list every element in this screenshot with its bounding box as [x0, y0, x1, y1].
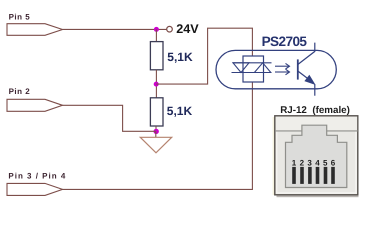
wire R1 to node B	[155, 70, 157, 98]
wire Pin3/4 to LED cathode	[63, 82, 253, 189]
pin bar 3	[308, 167, 312, 184]
diode D1 (down)	[233, 63, 249, 73]
svg-text:Pin 3 / Pin 4: Pin 3 / Pin 4	[8, 172, 66, 181]
svg-text:PS2705: PS2705	[262, 34, 308, 49]
emission arrow 1	[275, 63, 290, 69]
pin bar 5	[324, 167, 328, 184]
RJ-12 top strip	[276, 117, 358, 131]
pin bar 1	[292, 167, 296, 184]
wire node C to ground	[155, 131, 157, 137]
RJ-12 bottom shadow	[277, 196, 359, 198]
resistor R1	[150, 42, 163, 70]
transistor Q1 emitter arrow	[305, 76, 314, 84]
pin bar 6	[331, 167, 335, 184]
pin bar 2	[300, 167, 304, 184]
wire node B to LED anode	[156, 28, 252, 84]
resistor R2	[150, 98, 163, 126]
emission arrow 2	[275, 69, 290, 75]
junction node C	[154, 129, 159, 134]
connector arrow Pin 2	[7, 99, 63, 111]
wire R2 to node C	[155, 126, 157, 131]
junction node A	[154, 27, 159, 32]
transistor Q1 emitter	[298, 71, 309, 80]
wire Pin5 to 24V	[63, 28, 167, 30]
RJ-12 seam line	[275, 130, 358, 132]
svg-text:Pin 5: Pin 5	[9, 13, 31, 22]
svg-text:24V: 24V	[176, 22, 199, 36]
svg-text:5,1K: 5,1K	[167, 104, 193, 118]
RJ-12 socket silhouette	[286, 125, 347, 187]
pin bar 4	[316, 167, 320, 184]
junction node B	[154, 82, 159, 87]
RJ-12 left outer glow	[273, 117, 275, 195]
wire node A down to R1	[155, 29, 157, 41]
diode D2 (up)	[254, 63, 270, 73]
connector arrow Pin 5	[7, 24, 63, 36]
24V terminal circle	[167, 26, 173, 32]
transistor Q1 base	[297, 59, 299, 79]
RJ-12 outer box	[275, 116, 358, 195]
LED lower rail	[232, 72, 272, 74]
svg-text:RJ-12 (female): RJ-12 (female)	[280, 105, 350, 116]
LED pair box	[243, 56, 264, 82]
wire Pin2 to node C	[63, 105, 156, 131]
RJ-12 inner bevel	[277, 118, 356, 193]
transistor Q1 emitter pin	[314, 84, 316, 96]
optocoupler U1 body	[216, 50, 336, 88]
transistor Q1 collector	[298, 43, 315, 65]
svg-text:5,1K: 5,1K	[167, 50, 193, 64]
connector arrow Pin 3 / Pin 4	[7, 183, 63, 195]
LED upper rail	[233, 62, 272, 64]
svg-text:123456: 123456	[292, 158, 339, 167]
ground	[140, 137, 171, 153]
svg-text:Pin 2: Pin 2	[9, 87, 31, 96]
